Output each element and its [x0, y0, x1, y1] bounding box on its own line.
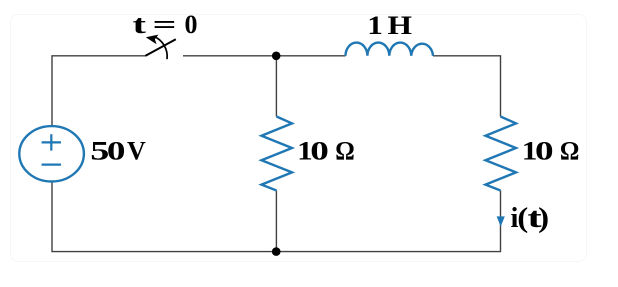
svg-text:t: t — [133, 10, 147, 39]
svg-text:1: 1 — [367, 11, 383, 40]
svg-text:): ) — [538, 203, 549, 234]
svg-text:Ω: Ω — [335, 137, 355, 166]
svg-text:0: 0 — [535, 137, 554, 166]
svg-text:0: 0 — [310, 137, 329, 166]
svg-text:Ω: Ω — [560, 137, 580, 166]
svg-text:0: 0 — [107, 137, 126, 166]
svg-text:V: V — [127, 137, 146, 166]
svg-text:=: = — [153, 10, 177, 39]
svg-text:0: 0 — [185, 10, 198, 39]
svg-text:H: H — [388, 11, 413, 40]
